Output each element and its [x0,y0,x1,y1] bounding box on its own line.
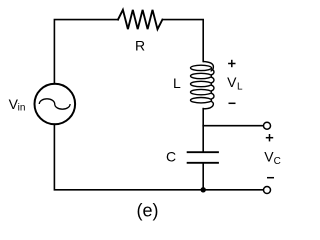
svg-text:L: L [237,81,243,92]
svg-text:C: C [166,149,176,165]
svg-text:R: R [135,37,145,53]
svg-text:V: V [227,74,237,90]
svg-text:in: in [18,102,26,113]
svg-text:L: L [173,75,181,91]
svg-text:(e): (e) [137,201,159,221]
svg-text:C: C [274,156,281,167]
